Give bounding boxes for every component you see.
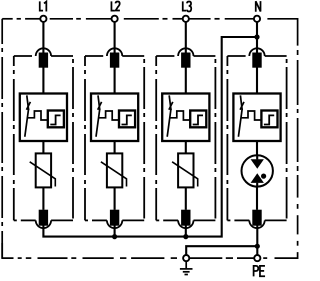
terminal earth (circle) — [183, 255, 189, 261]
bottom clamp contact N (black block) — [252, 210, 261, 226]
enclosure border solid corner bottom-left — [2, 243, 13, 258]
thermal disconnector with monitoring L2 — [91, 94, 138, 142]
terminal hop arc bottom N — [249, 220, 264, 228]
terminal hop arc top L1 — [36, 48, 51, 56]
label PE — [254, 266, 265, 277]
wire clamp to disconnector L1 — [42, 68, 44, 94]
top clamp contact L2 (black block) — [110, 53, 119, 68]
wire disconnector to varistor L3 — [185, 141, 187, 154]
wire PE to earth terminal — [186, 246, 257, 255]
wire disconnector to spark gap N — [256, 141, 258, 160]
terminal PE (circle) — [254, 255, 260, 261]
terminal L3 (circle) — [183, 16, 189, 22]
junction dot L3-bus — [183, 234, 188, 239]
wire varistor to bottom clamp L2 — [114, 187, 116, 209]
top clamp contact N (black block) — [252, 53, 261, 68]
terminal hop arc bottom L1 — [36, 220, 51, 228]
module box L3 (dash-dot enclosure) — [156, 56, 215, 220]
wire disconnector to varistor L1 — [42, 141, 44, 154]
wire varistor to bottom clamp L3 — [185, 187, 187, 209]
spark gap N-PE (gas discharge tube) — [242, 155, 273, 186]
enclosure border (dash-dot outer frame) — [2, 19, 297, 258]
junction dot L2-bus — [112, 234, 117, 239]
wire spark gap to bottom clamp N — [256, 186, 258, 209]
varistor L1 (MOV) — [30, 153, 56, 187]
wire clamp to disconnector L3 — [185, 68, 187, 94]
thermal disconnector with monitoring L3 — [162, 94, 209, 142]
thermal disconnector with monitoring N — [233, 94, 280, 142]
top clamp contact L3 (black block) — [181, 53, 190, 68]
terminal N (circle) — [254, 16, 260, 22]
terminal L2 (circle) — [112, 16, 118, 22]
wire clamp to disconnector N — [256, 68, 258, 94]
label L1 — [40, 1, 47, 11]
varistor L2 (MOV) — [101, 153, 127, 187]
wire N terminal to top clamp — [256, 22, 258, 56]
wire clamp to disconnector L2 — [114, 68, 116, 94]
wire L1 terminal to top clamp — [42, 22, 44, 56]
bottom clamp contact L2 (black block) — [110, 210, 119, 226]
terminal hop arc top L3 — [178, 48, 193, 56]
terminal hop arc top L2 — [107, 48, 122, 56]
junction dot N-PE — [255, 244, 260, 249]
wire L3 terminal to top clamp — [185, 22, 187, 56]
module box L2 (dash-dot enclosure) — [85, 56, 144, 220]
label L2 — [111, 1, 119, 10]
thermal disconnector with monitoring L1 — [20, 94, 67, 142]
label N — [256, 1, 261, 12]
label L3 — [183, 1, 192, 11]
bottom clamp contact L1 (black block) — [39, 210, 48, 226]
junction dot N-top — [254, 34, 259, 39]
enclosure border solid corner top-right — [267, 19, 297, 46]
terminal hop arc bottom L3 — [178, 220, 193, 228]
ground symbol — [180, 261, 193, 274]
wire bus varistors to N (star point) — [43, 37, 257, 237]
terminal hop arc top N — [249, 48, 264, 56]
bottom clamp contact L3 (black block) — [181, 210, 190, 226]
wire L3 bottom lead — [185, 224, 187, 237]
module box L1 (dash-dot enclosure) — [14, 56, 73, 220]
wire L2 terminal to top clamp — [114, 22, 116, 56]
module box N (dash-dot enclosure) — [227, 56, 286, 220]
wire N bottom lead to PE — [256, 224, 258, 255]
enclosure border solid corner bottom-right — [275, 252, 298, 258]
wire disconnector to varistor L2 — [114, 141, 116, 154]
varistor L3 (MOV) — [172, 153, 198, 187]
wire varistor to bottom clamp L1 — [42, 187, 44, 209]
terminal hop arc bottom L2 — [107, 220, 122, 228]
top clamp contact L1 (black block) — [39, 53, 48, 68]
wire L2 bottom lead — [114, 224, 116, 237]
terminal L1 (circle) — [40, 16, 46, 22]
